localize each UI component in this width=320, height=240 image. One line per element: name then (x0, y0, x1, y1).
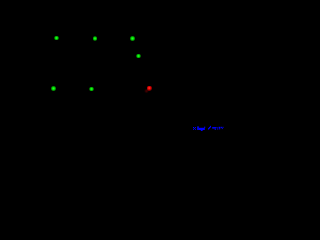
LED D4 (lit green indicator, middle-right) (136, 54, 140, 58)
red glow smear below LED D7 (144, 89, 149, 93)
signature watermark text (blue, bottom-right) (192, 125, 225, 134)
LED D2 (lit green indicator, top-middle) (93, 36, 97, 40)
LED D3 (lit green indicator, top-right) (130, 36, 134, 40)
slash (208, 128, 209, 130)
LED D5 (lit green indicator, bottom-left) (51, 86, 55, 90)
word "Jmd" : d ascender (203, 127, 206, 128)
LED D6 (lit green indicator, bottom-middle) (89, 87, 93, 91)
word "ASV" : S (219, 127, 221, 129)
word "ASV" : V (221, 127, 222, 128)
word "Jmd" : descender (201, 130, 203, 131)
glyph X (193, 127, 194, 128)
word "Jmd" : J stroke (197, 126, 199, 130)
word "Jmd" : lowercase mass (199, 128, 205, 130)
LED D7 (lit red indicator, bottom-right) (147, 86, 152, 91)
LED D1 (lit green indicator, top-left) (54, 36, 58, 40)
word "ASV" : A top bar (212, 127, 216, 129)
